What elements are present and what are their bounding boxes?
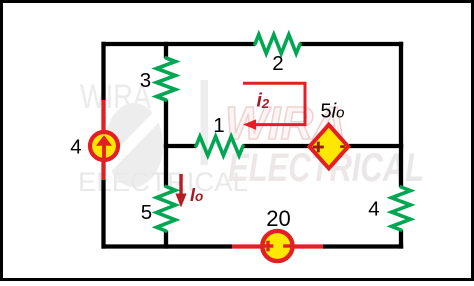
svg-text:3: 3	[140, 69, 151, 92]
svg-text:20: 20	[266, 206, 290, 231]
svg-text:1: 1	[213, 114, 224, 137]
svg-text:5: 5	[141, 201, 152, 224]
svg-text:5io: 5io	[321, 101, 345, 123]
svg-text:4: 4	[70, 136, 81, 159]
svg-text:2: 2	[272, 52, 283, 75]
svg-text:4: 4	[368, 198, 379, 221]
